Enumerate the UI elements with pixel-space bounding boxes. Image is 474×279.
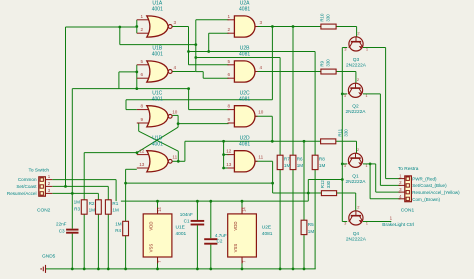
svg-text:VDD: VDD [149,222,154,231]
svg-text:2: 2 [228,27,231,32]
svg-text:2N2222A: 2N2222A [346,237,367,243]
svg-text:Q2: Q2 [352,103,359,109]
svg-text:R10: R10 [319,13,324,22]
svg-text:14: 14 [157,207,162,212]
svg-text:Set/Coast_(Blue): Set/Coast_(Blue) [412,183,447,188]
svg-text:4081: 4081 [239,7,250,13]
svg-text:To Switch: To Switch [29,167,50,173]
svg-text:330: 330 [326,180,331,188]
svg-text:10: 10 [172,110,178,115]
svg-text:1M: 1M [112,208,119,213]
svg-text:11: 11 [258,155,263,160]
svg-text:11: 11 [172,155,177,160]
svg-text:1M: 1M [319,163,326,168]
svg-text:U1E: U1E [176,224,185,230]
svg-text:R11: R11 [337,128,342,136]
svg-text:1M: 1M [308,229,315,234]
svg-text:1: 1 [141,14,144,19]
svg-text:8: 8 [228,104,231,109]
svg-text:13: 13 [226,162,232,167]
svg-text:6: 6 [141,72,144,77]
svg-text:8: 8 [141,104,144,109]
svg-text:CON2: CON2 [37,207,51,213]
svg-text:4081: 4081 [239,96,250,102]
svg-text:U2E: U2E [262,224,271,230]
svg-text:Q4: Q4 [353,231,360,237]
svg-text:To Restra: To Restra [398,166,419,172]
svg-text:Resume/Accel_(Yellow): Resume/Accel_(Yellow) [412,190,460,195]
svg-text:C1: C1 [184,218,190,223]
svg-text:R7: R7 [284,157,290,162]
svg-text:4081: 4081 [239,52,250,58]
svg-text:2N2222A: 2N2222A [345,109,366,115]
svg-text:2: 2 [141,27,144,32]
svg-text:330: 330 [343,129,348,137]
svg-text:4: 4 [260,65,263,70]
svg-text:2N2222A: 2N2222A [346,63,367,69]
svg-text:VSS: VSS [233,244,238,253]
svg-text:4001: 4001 [176,231,187,237]
svg-text:5: 5 [228,59,231,64]
svg-text:R2: R2 [89,201,95,206]
svg-text:R9: R9 [319,60,324,66]
svg-text:Set/Coast: Set/Coast [16,184,37,189]
svg-text:Q1: Q1 [352,173,359,179]
svg-text:1M: 1M [284,163,291,168]
svg-text:5: 5 [141,59,144,64]
svg-text:Resume/Accel: Resume/Accel [7,191,37,196]
svg-text:4001: 4001 [152,52,163,58]
svg-text:330: 330 [325,14,330,22]
svg-text:330: 330 [325,59,330,67]
svg-text:14: 14 [242,207,247,212]
svg-text:1M: 1M [115,222,122,227]
svg-text:12: 12 [139,149,145,154]
svg-text:4: 4 [174,65,177,70]
svg-text:R4: R4 [115,228,121,233]
svg-text:R6: R6 [297,157,303,162]
svg-text:4081: 4081 [262,231,273,237]
svg-text:R1: R1 [112,201,118,206]
svg-text:4001: 4001 [152,96,163,102]
svg-text:1M: 1M [74,200,81,205]
svg-text:R3: R3 [74,206,80,211]
svg-text:2N2222A: 2N2222A [345,179,366,185]
svg-text:1: 1 [228,14,231,19]
svg-text:10: 10 [258,110,264,115]
svg-text:Q3: Q3 [353,57,360,63]
svg-text:1M: 1M [89,208,96,213]
svg-text:VSS: VSS [149,244,154,253]
svg-text:9: 9 [228,117,231,122]
svg-text:R8: R8 [319,157,325,162]
svg-text:Common: Common [18,177,37,182]
svg-text:3: 3 [260,20,263,25]
svg-text:4081: 4081 [239,141,250,147]
svg-text:PWR_(Red): PWR_(Red) [412,176,437,181]
svg-text:13: 13 [139,162,145,167]
svg-text:CON1: CON1 [401,208,415,214]
svg-text:R5: R5 [308,222,314,227]
svg-text:VDD: VDD [233,222,238,231]
svg-text:C3: C3 [59,229,65,234]
svg-text:R12: R12 [320,180,325,189]
svg-text:22nF: 22nF [56,221,67,226]
svg-text:Com_(Brown): Com_(Brown) [412,197,440,202]
svg-text:4.7uF: 4.7uF [215,233,227,238]
svg-text:104nF: 104nF [180,212,193,217]
svg-text:C2: C2 [217,239,223,244]
svg-text:BrakeLight Ctrl: BrakeLight Ctrl [382,222,414,228]
svg-text:3: 3 [174,20,177,25]
svg-text:GND5: GND5 [42,253,56,259]
svg-text:12: 12 [226,149,232,154]
svg-text:4001: 4001 [152,7,163,13]
svg-text:6: 6 [228,72,231,77]
svg-text:1M: 1M [297,163,304,168]
svg-text:4001: 4001 [152,141,163,147]
svg-text:9: 9 [141,117,144,122]
